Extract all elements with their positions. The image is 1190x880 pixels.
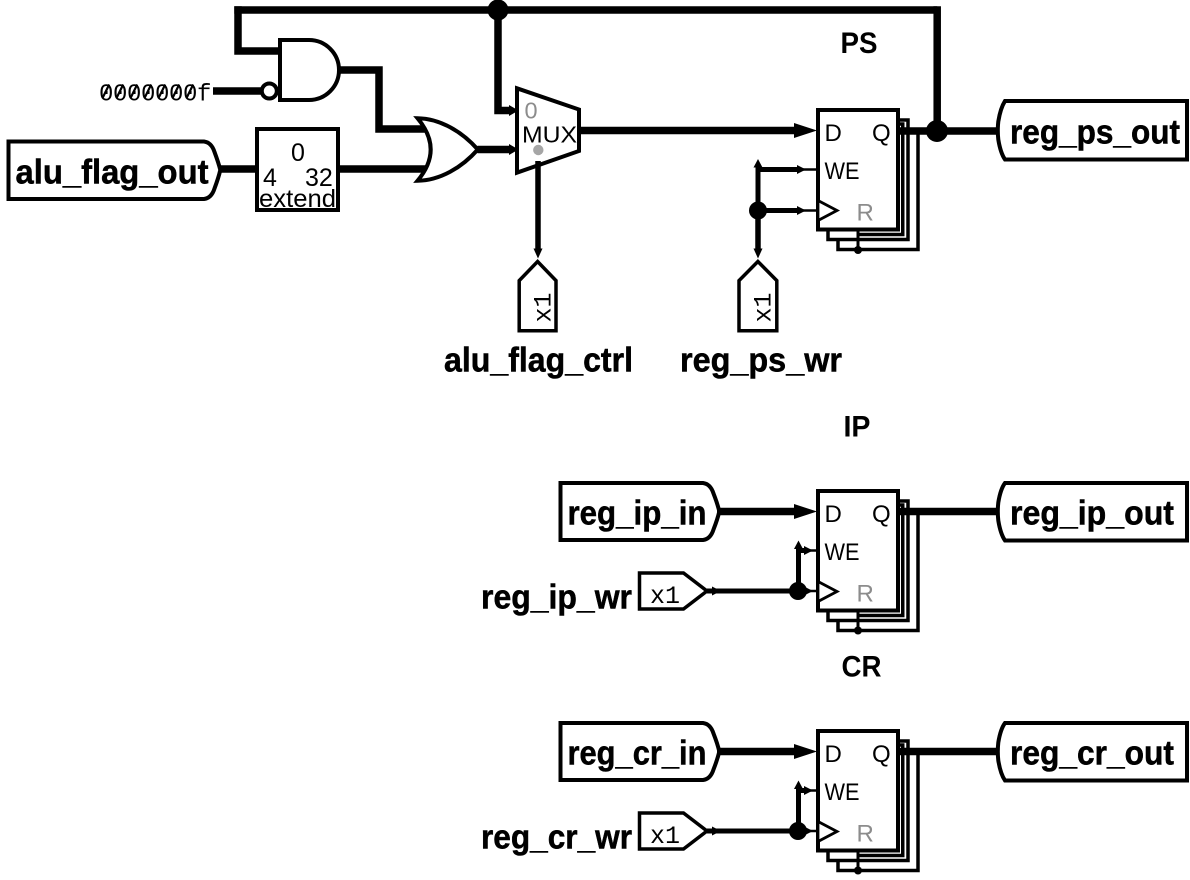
- CR-SECTION: [481, 651, 1187, 875]
- node register bottom: [854, 867, 862, 875]
- inverter bubble on AND input: [262, 84, 277, 99]
- svg-text:WE: WE: [825, 539, 860, 566]
- register CR main box: [818, 731, 898, 851]
- svg-text:0000000f: 0000000f: [99, 82, 211, 109]
- AND gate U1: [280, 40, 339, 100]
- wire register PS wrap: [858, 124, 903, 235]
- arrowhead clock input: [804, 827, 813, 836]
- svg-text:alu_flag_ctrl: alu_flag_ctrl: [444, 342, 633, 380]
- arrowhead WE input: [804, 546, 813, 555]
- clock triangle CR: [818, 822, 837, 842]
- arrowhead WE input: [804, 786, 813, 795]
- wire Q output to reg_ps_out: [898, 127, 1000, 135]
- svg-text:reg_ps_wr: reg_ps_wr: [680, 342, 842, 380]
- wire junction to clock: [758, 208, 797, 213]
- tag x1 (reg_ip_wr): [640, 573, 708, 609]
- wire WE port stub: [803, 789, 818, 792]
- wire WE port stub: [803, 549, 818, 552]
- wire WE port stub: [796, 168, 818, 171]
- arrowhead select tag: [534, 249, 543, 259]
- register IP shadow box 2: [838, 511, 918, 631]
- svg-text:reg_ip_out: reg_ip_out: [1010, 495, 1174, 533]
- input port alu_flag_out: [9, 142, 221, 200]
- node register bottom: [854, 246, 862, 254]
- svg-text:x1: x1: [650, 822, 680, 851]
- wire x1 tag to junction: [707, 589, 792, 594]
- node WE/clock junction: [789, 582, 807, 600]
- wire constant to inverter bubble: [213, 87, 261, 95]
- wire clock port stub: [803, 830, 818, 833]
- wire register CR wrap: [858, 745, 903, 856]
- wire register bottom stub: [857, 849, 860, 871]
- wire feedback top rail: [234, 6, 937, 14]
- wire Q output to reg_cr_out: [898, 748, 1000, 756]
- register PS shadow box 1: [828, 120, 908, 240]
- register IP main box: [818, 491, 898, 611]
- arrowhead elbow vertex up: [794, 781, 803, 790]
- arrowhead wire vertex: [712, 827, 721, 836]
- register PS shadow box 2: [838, 130, 918, 250]
- svg-text:WE: WE: [825, 158, 860, 185]
- svg-text:0: 0: [291, 139, 305, 167]
- wire rail branch down to MUX input 0: [498, 10, 510, 111]
- wire OR output to MUX input 1: [478, 146, 510, 154]
- svg-text:extend: extend: [259, 185, 336, 213]
- arrowhead D input: [794, 744, 817, 759]
- arrowhead clock input: [797, 206, 806, 215]
- slashed zero marks: [103, 85, 193, 98]
- clock triangle IP: [818, 582, 837, 602]
- input port reg_ip_in: [561, 483, 720, 540]
- arrowhead D input: [794, 504, 817, 519]
- register PS main box: [818, 110, 898, 230]
- arrowhead elbow vertex up: [754, 159, 763, 168]
- wire MUX output to register D: [579, 127, 796, 135]
- wire junction up to WE elbow: [799, 791, 805, 832]
- wire junction to clock: [798, 589, 804, 594]
- wire AND output to OR top input: [339, 70, 428, 129]
- OR gate U2: [418, 118, 478, 181]
- svg-text:R: R: [857, 581, 874, 608]
- arrowhead wire vertex: [712, 587, 721, 596]
- register CR shadow box 1: [828, 741, 908, 861]
- wire feedback drop right to Q node: [933, 6, 941, 131]
- svg-text:alu_flag_out: alu_flag_out: [16, 154, 209, 192]
- wire reg_ip_in to register D: [717, 508, 796, 516]
- svg-text:x1: x1: [750, 292, 779, 322]
- extend block: [257, 129, 338, 210]
- wire x1 tag to junction: [707, 829, 792, 834]
- wire drop from rail to NAND top input: [238, 6, 280, 51]
- svg-text:Q: Q: [872, 120, 891, 147]
- wire reg_cr_in to register D: [717, 748, 796, 756]
- mux U3: [517, 88, 579, 172]
- input port reg_cr_in: [561, 723, 720, 780]
- svg-text:IP: IP: [844, 411, 871, 444]
- wire junction to clock: [798, 829, 804, 834]
- register IP shadow box 1: [828, 501, 908, 621]
- svg-text:D: D: [825, 501, 842, 528]
- node rail junction: [488, 0, 509, 21]
- svg-text:reg_cr_in: reg_cr_in: [568, 735, 707, 773]
- wire MUX select down: [535, 161, 541, 249]
- arrowhead D input: [794, 123, 817, 138]
- PS-SECTION: [9, 0, 1188, 380]
- wire extend output to OR bottom input: [338, 165, 427, 173]
- wire alu_flag_out to extend: [219, 165, 258, 173]
- wire register bottom stub: [857, 609, 860, 631]
- svg-text:reg_cr_wr: reg_cr_wr: [481, 819, 632, 857]
- svg-text:MUX: MUX: [522, 122, 577, 148]
- svg-text:PS: PS: [841, 27, 878, 60]
- arrowhead clock input: [804, 587, 813, 596]
- svg-text:reg_ip_wr: reg_ip_wr: [481, 579, 632, 617]
- arrowhead elbow vertex up: [794, 541, 803, 550]
- svg-text:x1: x1: [530, 292, 559, 322]
- node Q feedback junction: [926, 120, 948, 142]
- wire clock port stub: [796, 209, 818, 212]
- node WE/clock junction: [749, 202, 767, 220]
- wire junction to WE elbow: [758, 170, 797, 211]
- wire register bottom stub: [857, 228, 860, 250]
- svg-text:D: D: [825, 120, 842, 147]
- svg-text:Q: Q: [872, 741, 891, 768]
- arrowhead MUX pin 0: [509, 105, 519, 116]
- node register bottom: [854, 627, 862, 635]
- tag x1 (reg_cr_wr): [640, 813, 708, 849]
- svg-text:reg_ps_out: reg_ps_out: [1010, 114, 1180, 152]
- svg-text:Q: Q: [872, 501, 891, 528]
- arrowhead WE input: [797, 165, 806, 174]
- wire clock port stub: [803, 590, 818, 593]
- node WE/clock junction: [789, 822, 807, 840]
- svg-text:0: 0: [525, 98, 538, 124]
- tag x1 (alu_flag_ctrl): [519, 262, 556, 331]
- svg-text:CR: CR: [842, 651, 882, 684]
- register CR shadow box 2: [838, 751, 918, 871]
- mux select marker dot: [533, 145, 543, 155]
- arrowhead reg_ps_wr tag: [754, 249, 763, 259]
- output port reg_ps_out: [998, 101, 1187, 160]
- arrowhead MUX pin 1: [509, 144, 519, 155]
- svg-text:WE: WE: [825, 779, 860, 806]
- svg-text:reg_ip_in: reg_ip_in: [568, 495, 707, 533]
- tag x1 (reg_ps_wr): [739, 262, 777, 331]
- wire junction up to WE elbow: [799, 551, 805, 592]
- clock triangle PS: [818, 201, 837, 221]
- wire Q output to reg_ip_out: [898, 508, 1000, 516]
- wire junction down to reg_ps_wr tag: [755, 211, 761, 250]
- IP-SECTION: [481, 411, 1187, 635]
- svg-text:R: R: [857, 200, 874, 227]
- svg-text:R: R: [857, 821, 874, 848]
- wire register IP wrap: [858, 505, 903, 616]
- svg-text:reg_cr_out: reg_cr_out: [1010, 735, 1174, 773]
- output port reg_cr_out: [998, 723, 1187, 781]
- svg-text:x1: x1: [650, 582, 680, 611]
- svg-text:D: D: [825, 741, 842, 768]
- output port reg_ip_out: [998, 483, 1187, 541]
